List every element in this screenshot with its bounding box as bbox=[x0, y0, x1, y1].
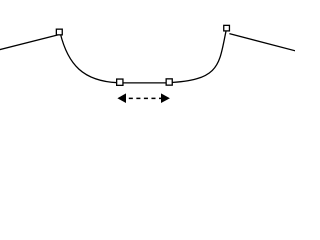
wire: left tangent line from left edge to left anchor bbox=[0, 35, 59, 50]
node: control handle square top-right bbox=[224, 25, 230, 31]
node: control handle square bottom-left bbox=[117, 79, 123, 85]
wire: right tangent line from right anchor to right edge bbox=[229, 34, 296, 51]
arrowhead: left solid triangle of double arrow bbox=[117, 93, 126, 103]
wire: flat bottom segment between the two middle handles bbox=[118, 82, 171, 84]
wire: dashed shaft of double arrow bbox=[129, 97, 162, 99]
wire: curve ascending from flat bottom to right anchor bbox=[169, 28, 227, 82]
arrowhead: right solid triangle of double arrow bbox=[161, 93, 170, 103]
node: control handle square bottom-right bbox=[166, 79, 172, 85]
node: control handle square top-left bbox=[56, 29, 62, 35]
wire: curve descending from left anchor to flat bottom bbox=[60, 33, 117, 83]
